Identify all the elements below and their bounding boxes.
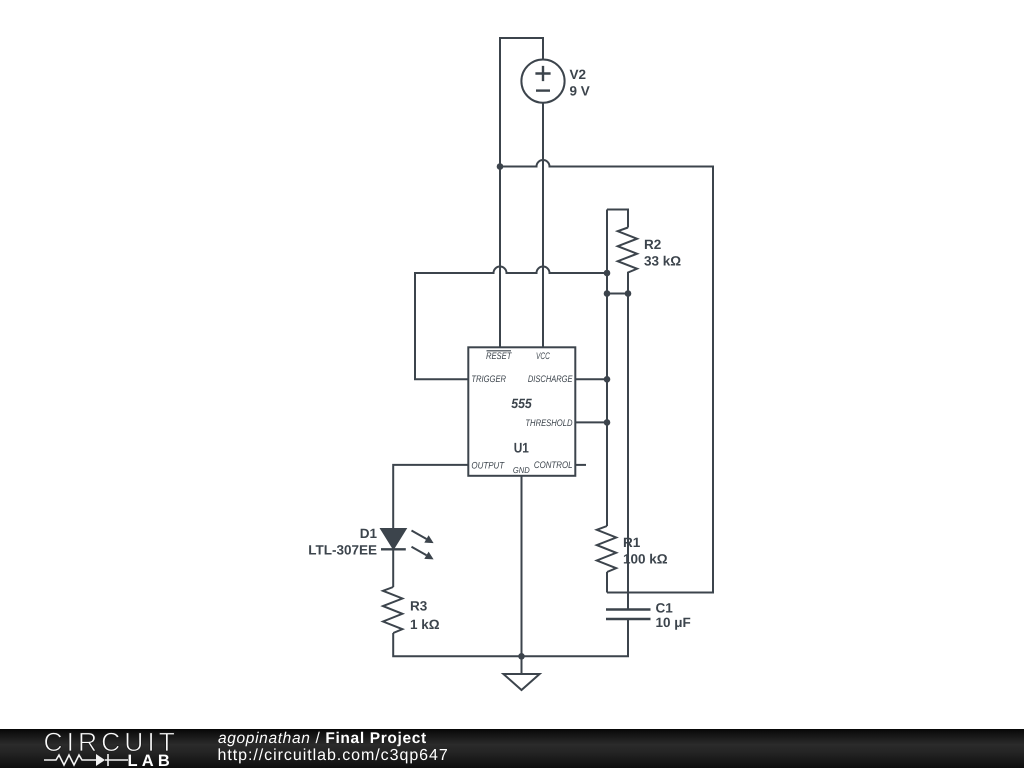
- node junction dots: [497, 163, 504, 170]
- svg-text:V2: V2: [570, 67, 587, 82]
- wire D1 to R3: [392, 549, 394, 587]
- svg-text:R2: R2: [644, 237, 661, 252]
- wire V+ rail with hop over VCC wire: [500, 160, 713, 593]
- logo LAB text: [128, 752, 175, 771]
- capacitor C1: [606, 610, 651, 620]
- svg-text:R3: R3: [410, 599, 428, 614]
- svg-text:10 μF: 10 μF: [656, 615, 691, 630]
- svg-text:100 kΩ: 100 kΩ: [623, 552, 668, 567]
- svg-text:GND: GND: [513, 465, 530, 475]
- wire R2 bottom bridge: [607, 293, 628, 295]
- svg-text:9 V: 9 V: [570, 83, 590, 98]
- svg-text:THRESHOLD: THRESHOLD: [525, 418, 572, 429]
- wire C1 branch vertical: [627, 273, 629, 610]
- svg-text:R1: R1: [623, 535, 641, 550]
- wire threshold pin: [576, 421, 608, 423]
- wire trigger net with hops: [415, 267, 607, 380]
- wire V2 plus loop to RESET: [500, 38, 543, 347]
- svg-text:TRIGGER: TRIGGER: [471, 374, 506, 385]
- wire discharge pin: [576, 378, 608, 380]
- svg-text:33 kΩ: 33 kΩ: [644, 254, 681, 269]
- ground: [503, 674, 539, 690]
- wire R2 top bend: [607, 210, 628, 228]
- author line: [218, 730, 427, 748]
- footer bar: [0, 729, 1024, 768]
- svg-text:555: 555: [511, 396, 532, 411]
- svg-text:VCC: VCC: [536, 351, 550, 362]
- url line: [218, 747, 449, 765]
- logo resistor-diode squiggle: [43, 752, 129, 768]
- svg-text:D1: D1: [360, 526, 378, 541]
- svg-text:C1: C1: [656, 601, 674, 616]
- LED D1: [381, 529, 405, 549]
- CircuitLab wordmark: [44, 727, 179, 758]
- svg-text:LTL-307EE: LTL-307EE: [308, 542, 377, 557]
- LED arrowheads: [424, 535, 433, 543]
- voltage source V2: [521, 60, 564, 103]
- svg-text:DISCHARGE: DISCHARGE: [528, 374, 573, 385]
- wire bottom rail to C1: [393, 619, 628, 656]
- wire control stub: [576, 464, 587, 466]
- wire R2 left bypass: [606, 210, 608, 527]
- op-amp U1 box (555 IC): [468, 347, 575, 476]
- wire output net: [393, 465, 468, 529]
- wire R1 bottom lead: [606, 572, 608, 593]
- svg-text:RESET: RESET: [486, 351, 512, 362]
- svg-text:U1: U1: [514, 439, 529, 455]
- svg-text:OUTPUT: OUTPUT: [471, 460, 505, 471]
- svg-text:CONTROL: CONTROL: [534, 460, 573, 471]
- svg-text:1 kΩ: 1 kΩ: [410, 617, 440, 632]
- wire V2 minus to VCC pin: [542, 103, 544, 347]
- resistor R2: [618, 228, 637, 294]
- resistor R3: [383, 587, 402, 633]
- resistor R1: [597, 526, 616, 572]
- wire GND pin to rail: [521, 476, 523, 674]
